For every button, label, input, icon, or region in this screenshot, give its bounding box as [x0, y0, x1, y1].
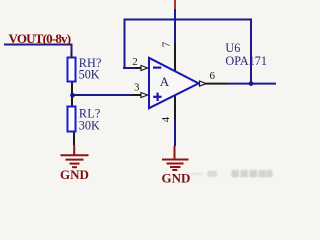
svg-text:7: 7	[160, 41, 172, 47]
svg-text:50K: 50K	[79, 68, 100, 82]
svg-text:GND: GND	[60, 167, 89, 182]
svg-text:A: A	[160, 74, 170, 89]
svg-text:GND: GND	[162, 170, 191, 184]
svg-text:2: 2	[132, 56, 138, 68]
svg-text:3: 3	[134, 81, 140, 93]
svg-text:U6: U6	[225, 41, 240, 55]
svg-text:6: 6	[210, 70, 216, 82]
svg-text:VOUT(0-8v): VOUT(0-8v)	[9, 31, 71, 46]
svg-text:30K: 30K	[79, 118, 100, 132]
svg-text:4: 4	[160, 116, 172, 122]
svg-text:OPA171: OPA171	[225, 54, 267, 68]
